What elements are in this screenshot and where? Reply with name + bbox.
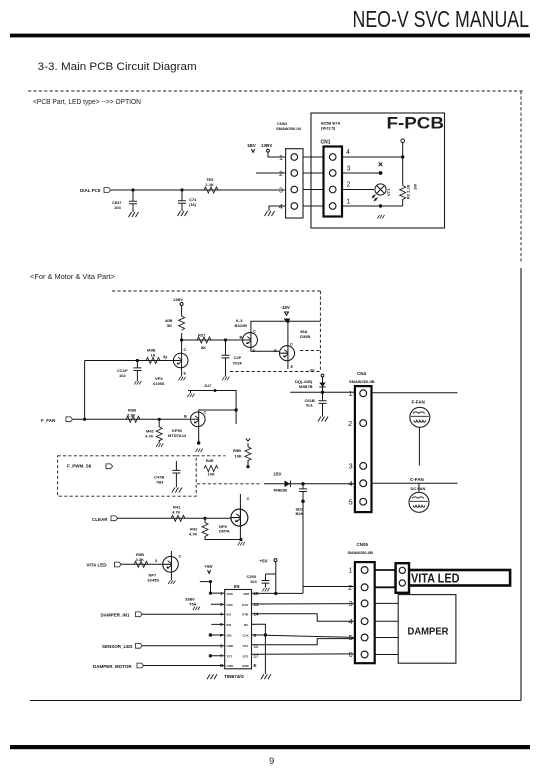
svg-text:VITA LED: VITA LED	[411, 572, 460, 586]
svg-text:2: 2	[348, 419, 352, 428]
svg-text:F_FAN: F_FAN	[41, 418, 55, 423]
svg-text:102: 102	[119, 373, 126, 378]
svg-text:B: B	[184, 414, 187, 419]
svg-text:104: 104	[114, 205, 121, 210]
svg-text:DIAL PC5: DIAL PC5	[80, 188, 101, 193]
svg-text:R2 2.2K: R2 2.2K	[406, 184, 411, 199]
svg-text:1: 1	[347, 199, 351, 206]
svg-text:SENSOR_LED: SENSOR_LED	[102, 644, 133, 649]
svg-text:CN1: CN1	[321, 140, 331, 146]
svg-text:Y02F: Y02F	[233, 361, 243, 366]
svg-text:T5A: T5A	[189, 602, 197, 607]
svg-text:1.1K: 1.1K	[206, 182, 215, 187]
svg-text:C: C	[204, 410, 207, 415]
svg-text:B322B: B322B	[235, 323, 248, 328]
svg-text:7B3: 7B3	[156, 480, 164, 485]
svg-text:GND: GND	[227, 644, 235, 648]
svg-text:10K: 10K	[208, 472, 215, 477]
svg-text:6245S: 6245S	[148, 578, 160, 583]
svg-text:2: 2	[279, 171, 283, 178]
svg-text:E: E	[291, 364, 294, 369]
svg-text:TST: TST	[227, 654, 233, 658]
svg-text:CLEAR: CLEAR	[92, 517, 108, 522]
svg-text:OTA: OTA	[242, 603, 249, 607]
svg-text:3: 3	[155, 558, 158, 563]
svg-text:R37: R37	[198, 333, 206, 338]
svg-text:T98674/G: T98674/G	[224, 674, 245, 679]
svg-text:B: B	[240, 335, 243, 340]
svg-text:B4E: B4E	[206, 458, 214, 463]
svg-text:1BV: 1BV	[247, 143, 256, 148]
svg-text:+5V: +5V	[260, 559, 268, 564]
svg-text:3.3K: 3.3K	[127, 412, 136, 417]
svg-text:CN4: CN4	[357, 371, 366, 376]
svg-text:CN05: CN05	[357, 542, 369, 547]
svg-text:F_PWM_S6: F_PWM_S6	[67, 464, 92, 469]
svg-text:OT1: OT1	[243, 644, 249, 648]
svg-text:6: 6	[349, 650, 353, 659]
svg-text:2: 2	[348, 583, 352, 592]
svg-text:3: 3	[279, 188, 283, 195]
svg-text:SMAW250-04: SMAW250-04	[276, 126, 302, 131]
svg-text:B: B	[274, 348, 277, 353]
svg-text:1: 1	[279, 155, 283, 162]
svg-text:SEL: SEL	[227, 634, 233, 638]
svg-text:9: 9	[269, 756, 274, 767]
svg-text:C: C	[184, 347, 187, 352]
svg-text:F-PCB: F-PCB	[387, 114, 445, 133]
svg-text:8K: 8K	[201, 345, 206, 350]
svg-text:OT2: OT2	[243, 654, 249, 658]
svg-text:13: 13	[254, 602, 260, 607]
svg-text:IN2: IN2	[227, 623, 232, 627]
svg-text:3.3K: 3.3K	[136, 557, 145, 562]
svg-text:OSC: OSC	[227, 603, 234, 607]
svg-text:C-FAN: C-FAN	[410, 477, 424, 482]
svg-text:4: 4	[346, 149, 350, 156]
svg-text:-15V: -15V	[281, 305, 291, 310]
svg-text:13BV: 13BV	[173, 297, 183, 302]
svg-text:GND: GND	[227, 664, 235, 668]
svg-text:(WJ2.5): (WJ2.5)	[321, 126, 336, 131]
svg-text:SMAW250-0B: SMAW250-0B	[349, 379, 375, 384]
svg-text:1: 1	[349, 389, 353, 398]
svg-text:104: 104	[250, 579, 257, 584]
svg-text:<PCB Part, LED type> -->> OPTI: <PCB Part, LED type> -->> OPTION	[33, 99, 141, 106]
svg-text:NC: NC	[244, 623, 249, 627]
svg-text:F-FAN: F-FAN	[412, 400, 425, 405]
svg-text:VT1: VT1	[386, 188, 391, 196]
svg-text:DAMPER: DAMPER	[408, 626, 449, 638]
svg-text:1: 1	[349, 566, 353, 575]
svg-text:2: 2	[347, 182, 351, 189]
svg-text:SMAW250-0B: SMAW250-0B	[348, 550, 374, 555]
svg-text:E9: E9	[234, 584, 240, 589]
svg-text:0u1: 0u1	[306, 403, 314, 408]
svg-text:6105S: 6105S	[153, 381, 165, 386]
svg-text:CLK: CLK	[243, 634, 250, 638]
svg-text:E: E	[254, 663, 257, 668]
svg-text:M3B7B: M3B7B	[299, 384, 313, 389]
svg-text:10K: 10K	[235, 454, 242, 459]
svg-text:B2K: B2K	[296, 511, 304, 516]
svg-text:DNTA: DNTA	[219, 529, 230, 534]
svg-text:4: 4	[279, 204, 283, 211]
svg-text:M4B2B: M4B2B	[274, 488, 288, 493]
svg-text:(16): (16)	[189, 202, 197, 207]
svg-text:+5V: +5V	[205, 564, 213, 569]
svg-text:GND: GND	[242, 664, 250, 668]
svg-text:OTB: OTB	[242, 613, 249, 617]
svg-text:4.7K: 4.7K	[145, 434, 154, 439]
svg-text:DAMPER_IN1: DAMPER_IN1	[101, 612, 131, 617]
svg-text:IN1: IN1	[227, 613, 232, 617]
svg-text:MTDTA14: MTDTA14	[168, 433, 187, 438]
svg-text:VDD: VDD	[227, 592, 234, 596]
svg-text:DC FAN: DC FAN	[411, 486, 426, 491]
svg-text:VDD: VDD	[243, 592, 250, 596]
svg-text:C2P: C2P	[234, 355, 242, 360]
svg-text:4: 4	[349, 479, 353, 488]
svg-text:NEO-V SVC MANUAL: NEO-V SVC MANUAL	[353, 6, 530, 32]
svg-text:4.7K: 4.7K	[189, 532, 198, 537]
svg-text:1K: 1K	[151, 353, 156, 358]
svg-text:C: C	[179, 554, 182, 559]
svg-text:<For & Motor & Vita Part>: <For & Motor & Vita Part>	[30, 274, 115, 281]
svg-text:4.7K: 4.7K	[172, 510, 181, 515]
svg-text:3: 3	[347, 166, 351, 173]
svg-text:E: E	[184, 371, 187, 376]
svg-text:D30B: D30B	[300, 334, 310, 339]
svg-text:C: C	[247, 496, 250, 501]
svg-text:C: C	[290, 342, 293, 347]
svg-text:3-3. Main PCB Circuit Diagram: 3-3. Main PCB Circuit Diagram	[38, 61, 197, 73]
svg-text:1W: 1W	[413, 184, 418, 190]
svg-text:DAMPER_MOTOR: DAMPER_MOTOR	[93, 664, 132, 669]
svg-text:C: C	[253, 329, 256, 334]
svg-text:VITA LED: VITA LED	[87, 563, 108, 568]
svg-text:3: 3	[165, 355, 168, 360]
svg-text:5: 5	[349, 498, 353, 507]
svg-text:-7V: -7V	[309, 368, 316, 373]
svg-text:11: 11	[254, 643, 259, 648]
svg-text:13BV: 13BV	[261, 143, 272, 148]
svg-text:5K: 5K	[167, 323, 172, 328]
svg-text:3: 3	[349, 462, 353, 471]
svg-text:E: E	[253, 348, 256, 353]
svg-text:15V: 15V	[274, 472, 282, 477]
svg-text:R5B: R5B	[233, 448, 241, 453]
svg-text:JU7: JU7	[204, 383, 212, 388]
